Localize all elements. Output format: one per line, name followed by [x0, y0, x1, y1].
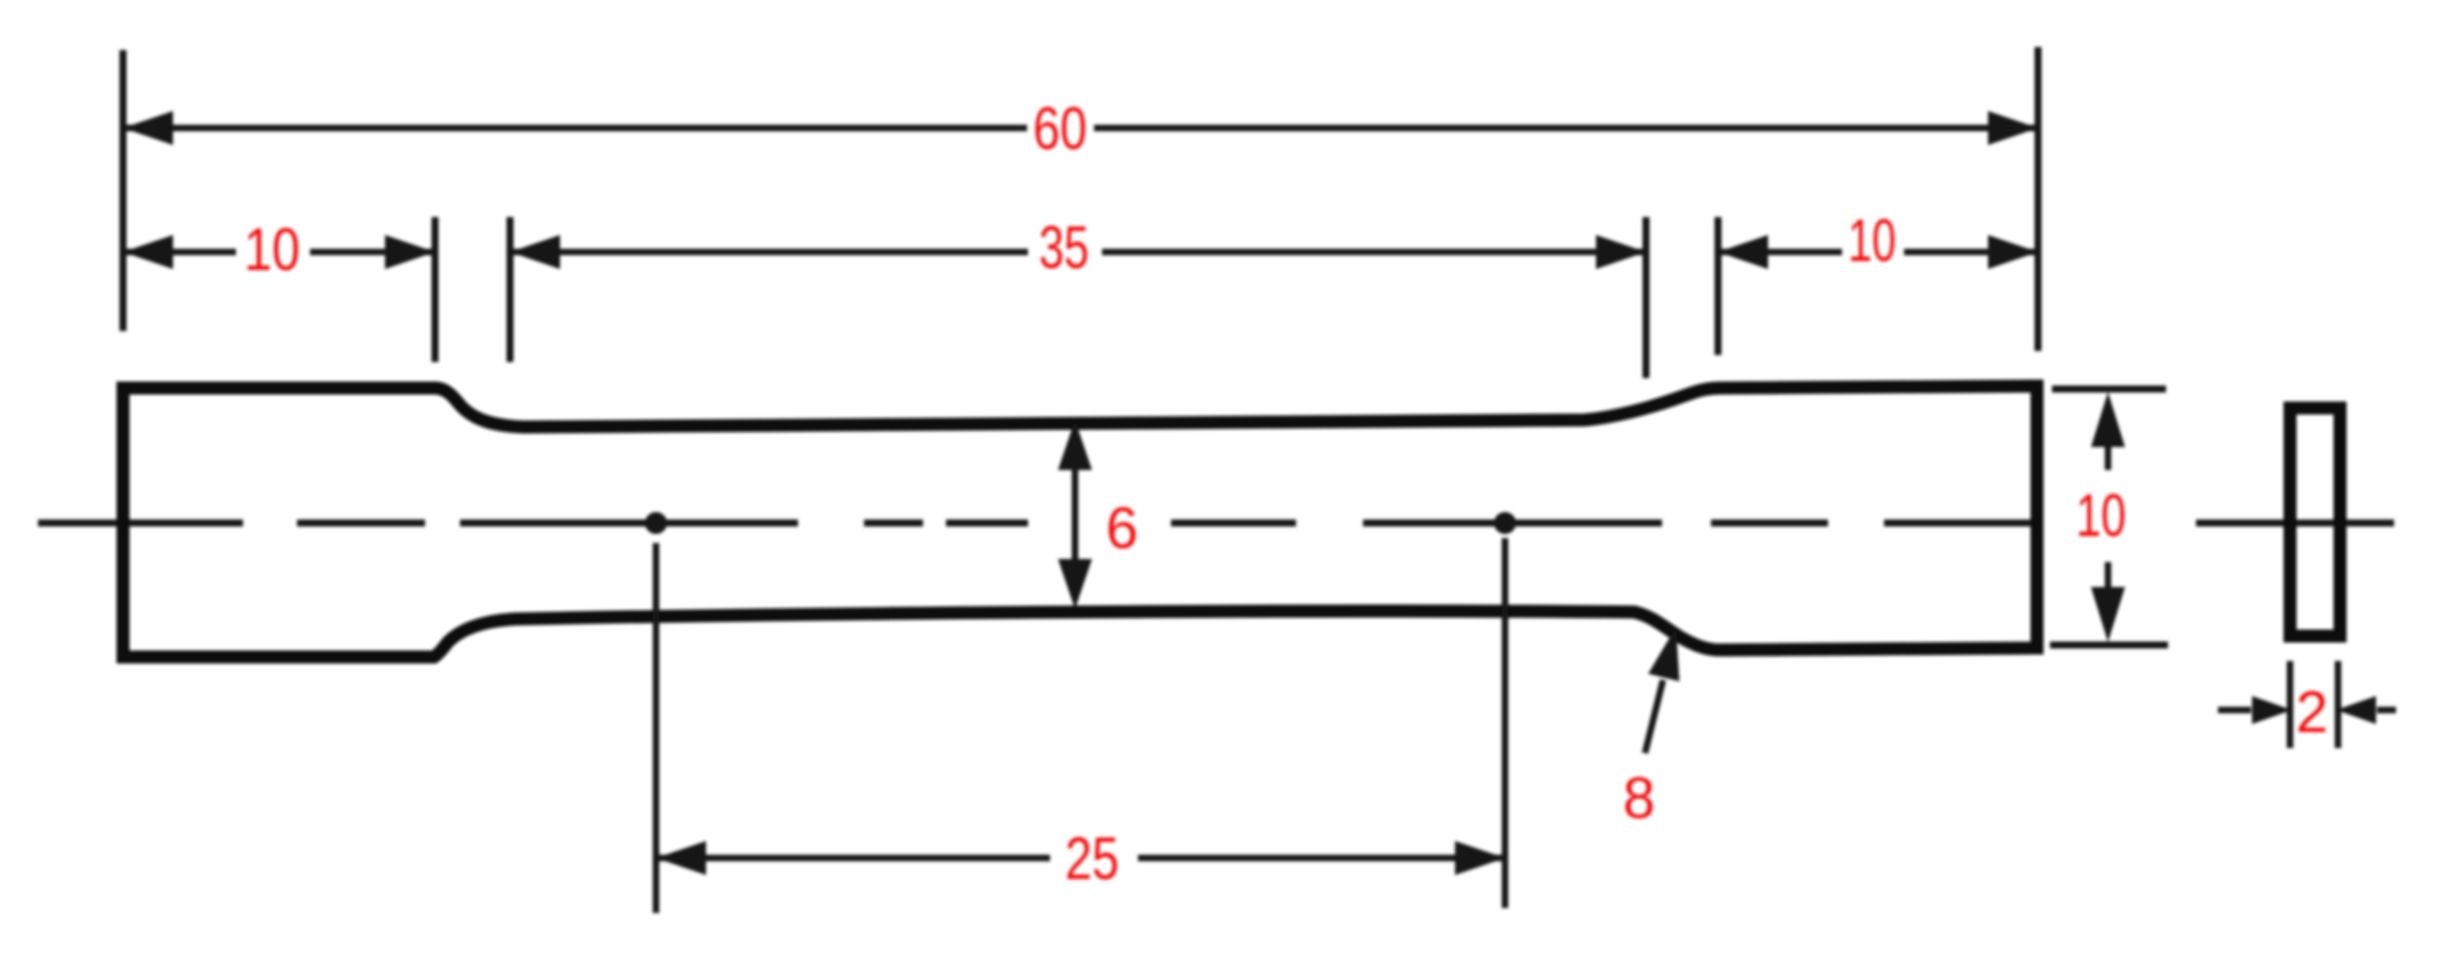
extension line 10-left right end: [432, 217, 439, 362]
extension line 35 right end: [1643, 217, 1650, 378]
svg-text:25: 25: [1065, 825, 1119, 892]
specimen outline: [123, 386, 2037, 657]
centerline axis: [38, 520, 2394, 527]
extension line 2 left: [2287, 661, 2294, 748]
extension line 25 left: [653, 543, 660, 913]
leader arrow 8 fillet: [1645, 627, 1679, 753]
dimension line 60: [123, 111, 2038, 145]
svg-text:2: 2: [2296, 680, 2328, 745]
dimension 10 vertical right: [2050, 389, 2168, 645]
extension line 25 right: [1502, 538, 1509, 908]
svg-text:60: 60: [1033, 95, 1087, 162]
dimension line 35: [510, 235, 1646, 269]
dimension line 25: [656, 841, 1505, 875]
svg-text:35: 35: [1039, 214, 1089, 281]
extension line far right: [2035, 47, 2042, 351]
svg-text:6: 6: [1106, 496, 1138, 561]
dimension line 2: [2218, 696, 2396, 724]
svg-text:10: 10: [244, 216, 300, 283]
section view rectangle: [2290, 408, 2340, 636]
node gauge mark right (dot): [1494, 512, 1516, 534]
extension line 10-right left end: [1715, 217, 1722, 355]
dimension arrow 6 vertical: [1058, 420, 1092, 609]
extension line 35 left end: [507, 217, 514, 362]
extension line far left: [120, 50, 127, 331]
extension line 2 right: [2335, 661, 2342, 748]
svg-text:8: 8: [1623, 766, 1655, 831]
node gauge mark left (dot): [645, 512, 667, 534]
svg-text:10: 10: [1848, 207, 1896, 274]
dimension line 10 left: [123, 235, 435, 269]
dimension line 10 right: [1718, 235, 2038, 269]
svg-text:10: 10: [2076, 482, 2126, 549]
